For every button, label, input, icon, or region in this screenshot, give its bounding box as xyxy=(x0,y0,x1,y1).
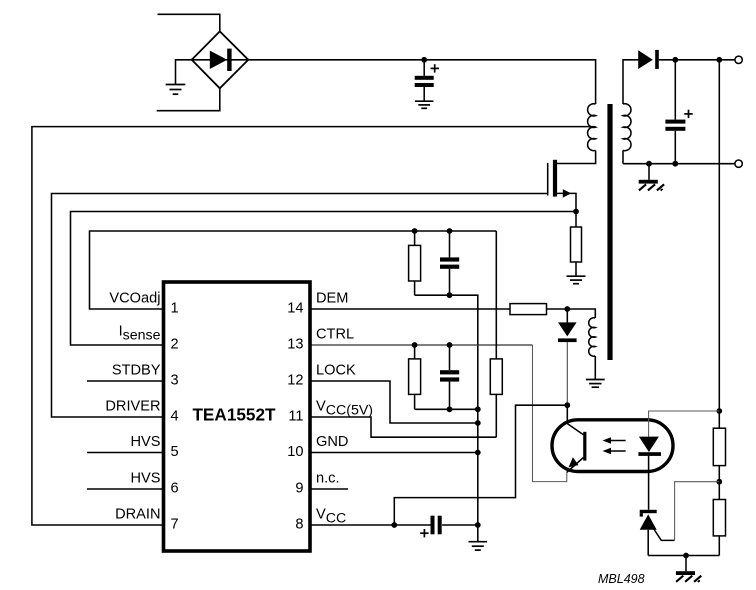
junction: rail / C1 xyxy=(421,57,427,63)
output terminal minus xyxy=(735,160,742,167)
wire: divider bottom xyxy=(718,536,720,556)
svg-text:DRAIN: DRAIN xyxy=(115,507,160,523)
diode (DEM/Vcc rectifier) xyxy=(558,309,577,405)
svg-text:VCOadj: VCOadj xyxy=(109,291,160,307)
optocoupler body xyxy=(552,420,673,472)
transformer secondary winding xyxy=(623,104,631,151)
junction: LOCK / riser xyxy=(475,420,481,426)
svg-text:2: 2 xyxy=(171,337,179,353)
capacitor (output electrolytic) xyxy=(665,60,685,164)
zener reference diode xyxy=(640,510,657,556)
resistor (divider upper) xyxy=(713,428,725,465)
output terminal plus xyxy=(735,56,742,63)
wire: DRIVER net pin4 to gate xyxy=(52,194,548,418)
wire: STDBY stub pin3 xyxy=(87,380,164,382)
wire: secondary bottom lead xyxy=(622,150,624,163)
svg-text:5: 5 xyxy=(171,444,179,460)
junction: feedback rail xyxy=(716,57,722,63)
svg-text:6: 6 xyxy=(171,481,179,497)
svg-text:TEA1552T: TEA1552T xyxy=(192,405,276,425)
wire: CTRL pin13 xyxy=(310,344,533,346)
svg-text:11: 11 xyxy=(288,409,303,425)
svg-text:7: 7 xyxy=(171,517,179,533)
capacitor C1 (mains bulk electrolytic) xyxy=(415,60,434,101)
wire: Vcc supply link from diode node xyxy=(394,405,567,525)
wire: reference to divider midpoint xyxy=(675,482,720,541)
ground (IC / VCC cap) xyxy=(469,542,488,550)
wire: aux winding to ground xyxy=(594,356,596,380)
svg-text:STDBY: STDBY xyxy=(112,363,161,379)
svg-text:14: 14 xyxy=(287,301,303,317)
wire: LOCK pin12 xyxy=(310,381,478,423)
optocoupler phototransistor xyxy=(567,405,587,472)
chassis ground (secondary) xyxy=(639,164,664,191)
IC U1 TEA1552T xyxy=(164,282,311,551)
MOSFET Q1 xyxy=(548,160,576,212)
transformer T1 primary winding xyxy=(588,104,596,151)
svg-text:LOCK: LOCK xyxy=(316,363,356,379)
chassis ground (reference) xyxy=(676,556,701,583)
svg-text:10: 10 xyxy=(287,444,303,460)
junction xyxy=(447,292,453,298)
junction: VCOadj / C xyxy=(447,228,453,234)
capacitor (CTRL) xyxy=(440,345,459,409)
wire: Isense net pin2 to source xyxy=(71,212,577,346)
junction: CTRL / C xyxy=(447,342,453,348)
junction: source / Isense xyxy=(573,209,579,215)
junction xyxy=(475,406,481,412)
wire: CTRL RC bottom xyxy=(415,408,478,410)
bridge rectifier xyxy=(192,31,249,88)
ground (aux winding) xyxy=(586,380,605,388)
output cap polarity plus xyxy=(684,110,692,118)
capacitor (VCC electrolytic) xyxy=(431,516,478,535)
wire: secondary bottom rail xyxy=(623,163,735,165)
wire: rectified HV rail xyxy=(248,60,595,104)
junction: output cap bottom xyxy=(672,161,678,167)
svg-text:4: 4 xyxy=(171,409,179,425)
junction: VCC cap / ground riser xyxy=(475,522,481,528)
wire: HVS stub pin5 xyxy=(87,452,164,454)
resistor (source sense) xyxy=(571,212,582,277)
junction: diode node xyxy=(564,402,570,408)
wire: RC bottom node to IC ground riser xyxy=(415,295,478,541)
wire: HVS stub pin6 xyxy=(87,488,164,490)
wire: secondary top lead xyxy=(623,60,639,104)
junction: LED anode line xyxy=(716,408,722,414)
VCC cap polarity plus xyxy=(420,529,428,537)
wire: primary bottom to MOSFET drain xyxy=(557,150,596,163)
svg-text:12: 12 xyxy=(287,373,303,389)
svg-text:CTRL: CTRL xyxy=(316,327,354,343)
wire: VCC pin8 xyxy=(310,524,431,526)
resistor (VCOadj) xyxy=(409,231,421,295)
junction: VCOadj / R xyxy=(412,228,418,234)
optocoupler light arrows xyxy=(603,437,626,454)
wire: CTRL to optocoupler emitter xyxy=(533,345,567,482)
optocoupler LED xyxy=(638,411,719,510)
junction: GND / riser xyxy=(475,450,481,456)
svg-text:MBL498: MBL498 xyxy=(598,572,645,586)
junction xyxy=(447,406,453,412)
junction: VCC / supply link xyxy=(391,522,397,528)
resistor (5V rail) xyxy=(490,231,502,437)
junction: secondary ground xyxy=(646,161,652,167)
wire: VCC(5V) pin11 xyxy=(310,417,496,437)
wire: DRAIN net pin7 to transformer tap xyxy=(32,127,596,525)
wire: reference tap diagonal xyxy=(652,526,675,541)
svg-text:HVS: HVS xyxy=(130,434,160,450)
svg-text:13: 13 xyxy=(287,337,303,353)
wire: AC input bottom stub xyxy=(157,88,220,110)
svg-text:1: 1 xyxy=(171,301,179,317)
svg-text:DEM: DEM xyxy=(316,291,348,307)
wire: DEM resistor to aux winding xyxy=(547,309,596,318)
transformer core xyxy=(607,104,612,360)
wire: AC input top stub xyxy=(158,14,220,31)
svg-text:GND: GND xyxy=(316,434,348,450)
svg-text:9: 9 xyxy=(295,481,303,497)
wire: DEM pin14 xyxy=(310,308,510,310)
wire: GND pin10 xyxy=(310,452,478,454)
diode (secondary rectifier) xyxy=(638,50,735,69)
capacitor (VCOadj) xyxy=(440,231,459,295)
svg-text:HVS: HVS xyxy=(130,471,160,487)
junction: divider midpoint xyxy=(716,479,722,485)
wire: bridge left vertex to ground xyxy=(176,60,192,85)
resistor (divider lower) xyxy=(713,500,725,536)
junction: reference ground xyxy=(683,553,689,559)
ground (C1) xyxy=(415,101,434,108)
bridge rectifier internal diode xyxy=(192,49,249,71)
wire: feedback rail right side xyxy=(718,60,720,428)
C1 polarity plus xyxy=(431,64,440,72)
svg-text:DRIVER: DRIVER xyxy=(105,399,160,415)
junction: output cap xyxy=(672,57,678,63)
junction: DEM node xyxy=(564,306,570,312)
svg-text:3: 3 xyxy=(171,373,179,389)
junction: CTRL / R xyxy=(412,342,418,348)
resistor (CTRL) xyxy=(409,345,421,409)
wire: n.c. stub pin9 xyxy=(310,488,348,490)
svg-text:8: 8 xyxy=(295,517,303,533)
wire: VCOadj net pin1 xyxy=(90,231,497,309)
wire: reference side bottom rail xyxy=(648,555,719,557)
ground (mains) xyxy=(166,85,186,95)
transformer auxiliary winding xyxy=(589,318,596,357)
ground (source resistor) xyxy=(567,276,586,284)
svg-text:n.c.: n.c. xyxy=(316,471,340,487)
resistor (DEM) xyxy=(510,304,547,315)
wire: divider middle xyxy=(718,466,720,500)
